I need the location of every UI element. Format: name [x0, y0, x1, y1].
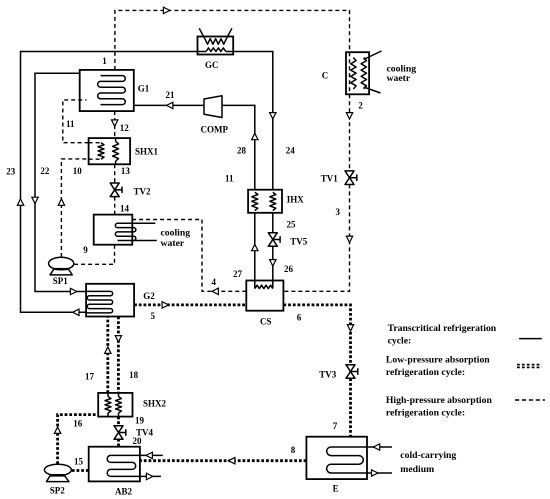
arrow 2 pointing down [346, 113, 352, 119]
svg-text:cycle:: cycle: [388, 335, 412, 346]
svg-text:4: 4 [211, 277, 216, 287]
svg-text:8: 8 [291, 445, 296, 455]
svg-text:16: 16 [73, 419, 83, 429]
solution heat exchanger SHX2 [98, 393, 132, 417]
svg-text:Low-pressure absorption: Low-pressure absorption [386, 355, 490, 366]
dashed wire 11 (SHX1 up to G1 left) [63, 100, 89, 143]
compressor COMP [204, 96, 222, 118]
svg-text:IHX: IHX [287, 195, 305, 205]
dashed wire 14 (TV2 to AB1) [114, 197, 116, 215]
svg-text:E: E [333, 484, 339, 494]
arrow into E coil pointing left [373, 444, 379, 450]
wire line 26 (TV5 down into CS) [272, 246, 274, 280]
svg-text:10: 10 [73, 166, 83, 176]
svg-text:5: 5 [151, 311, 156, 321]
svg-text:waetr: waetr [387, 73, 411, 84]
svg-text:13: 13 [121, 166, 131, 176]
condenser C [346, 51, 382, 94]
solution pump SP1 [49, 257, 74, 275]
dashed wire 10 (SP1 up to SHX1) [61, 159, 88, 257]
svg-text:TV5: TV5 [290, 237, 308, 247]
svg-text:1: 1 [102, 56, 107, 66]
arrow on line 21 pointing left [167, 102, 173, 108]
wire line 21 (COMP discharge to G1) [134, 104, 204, 106]
arrow 10 pointing up [58, 199, 64, 205]
legend dashed sample [515, 399, 545, 401]
solution heat exchanger SHX1 [89, 138, 131, 164]
valve TV2 [110, 183, 122, 197]
wire line 27 (CS up to IHX) [254, 213, 256, 281]
thick dotted wire 15 (AB2 to SP2) [71, 469, 88, 472]
evaporator E [306, 437, 392, 479]
dashed wire 12 (G1 bottom to SHX1) [114, 111, 116, 138]
absorber AB2 [89, 447, 163, 482]
svg-text:26: 26 [284, 264, 294, 274]
thick dotted wire 19 (SHX2 to TV4) [117, 417, 120, 427]
svg-text:TV1: TV1 [321, 174, 339, 184]
svg-text:27: 27 [233, 269, 243, 279]
internal heat exchanger IHX [248, 190, 282, 213]
generator G1 [80, 70, 134, 111]
thick dotted wire 8 (E to AB2) [140, 459, 306, 462]
svg-text:15: 15 [74, 457, 84, 467]
dashed wire 1 (G1 top to condenser C) [115, 10, 350, 70]
svg-text:21: 21 [166, 90, 176, 100]
valve TV3 [346, 365, 358, 379]
svg-text:SP2: SP2 [50, 485, 66, 495]
arrow 12 pointing down [112, 120, 118, 126]
svg-text:19: 19 [135, 416, 145, 426]
wire line 22 (G1 left outlet down to G2 inlet) [35, 73, 86, 291]
valve TV1 [345, 171, 357, 185]
wire line 25 (IHX down to TV5) [272, 213, 274, 233]
svg-text:14: 14 [120, 204, 130, 214]
svg-text:22: 22 [40, 166, 50, 176]
arrow 8 pointing left [229, 458, 235, 464]
arrow on top dashed wire pointing right [163, 7, 169, 13]
svg-text:cold-carrying: cold-carrying [400, 450, 456, 461]
arrow out of E coil pointing right [372, 470, 378, 476]
absorber AB1 [94, 215, 157, 245]
dashed wire 4 (CS left to AB1) [132, 220, 246, 292]
wire line 23 (G2 outlet up to GC, outer loop) [21, 52, 198, 313]
thick dotted wire 5 (G2 to CS) [134, 303, 246, 306]
svg-text:17: 17 [85, 371, 95, 381]
svg-text:12: 12 [120, 123, 130, 133]
generator G2 [86, 284, 134, 317]
thick dotted wire 16 (SP2 up to SHX2) [58, 415, 99, 464]
cascade heat exchanger CS [246, 281, 283, 311]
arrow 18 pointing down [115, 336, 121, 342]
arrow 6 pointing down [347, 325, 353, 331]
solution pump SP2 [44, 464, 71, 481]
svg-text:11: 11 [66, 119, 75, 129]
svg-text:medium: medium [400, 464, 434, 475]
wire line 24 (GC outlet down to IHX) [233, 52, 273, 190]
dashed wire 3 (TV1 down, into CS right) [283, 184, 349, 291]
svg-text:25: 25 [287, 219, 297, 229]
svg-text:9: 9 [83, 245, 88, 255]
arrow 5 pointing right [162, 302, 168, 308]
svg-text:water: water [161, 238, 185, 249]
thick dotted wire 6 (CS right then down to TV3) [283, 305, 350, 365]
arrow 4 pointing left [212, 288, 218, 294]
svg-text:C: C [322, 71, 329, 81]
arrow on line 22 pointing down [32, 197, 38, 203]
svg-text:refrigeration cycle:: refrigeration cycle: [386, 367, 465, 378]
thick dotted wire 7 (TV3 to E) [349, 378, 352, 436]
legend thick dotted sample [517, 364, 542, 366]
wire line 28 (IHX up to COMP suction) [222, 105, 255, 189]
svg-text:SHX1: SHX1 [135, 147, 159, 157]
dashed wire 13 (SHX1 to TV2) [114, 164, 116, 183]
svg-text:SHX2: SHX2 [143, 398, 167, 408]
svg-text:G1: G1 [138, 83, 150, 93]
arrow on line 23 pointing up [17, 199, 23, 205]
svg-text:G2: G2 [143, 291, 155, 301]
arrow into AB2 coil pointing left [146, 452, 152, 458]
svg-text:AB2: AB2 [115, 487, 133, 497]
arrow 3 pointing down [346, 236, 352, 242]
valve TV5 [268, 233, 280, 247]
svg-text:High-pressure absorption: High-pressure absorption [386, 395, 493, 406]
svg-text:TV2: TV2 [133, 186, 151, 196]
svg-text:24: 24 [286, 145, 296, 155]
thick dotted wire 18 (G2 down to SHX2) [117, 317, 120, 393]
svg-text:Transcritical refrigeration: Transcritical refrigeration [388, 323, 497, 334]
arrow on line 26 pointing down [270, 260, 276, 266]
thick dotted wire 17 (SHX2 up to G2) [106, 317, 109, 393]
svg-text:refrigeration cycle:: refrigeration cycle: [386, 408, 465, 419]
svg-text:TV3: TV3 [319, 369, 337, 379]
gas cooler GC [198, 28, 234, 54]
arrow on line 27 pointing up [252, 244, 258, 250]
svg-text:COMP: COMP [201, 124, 229, 134]
arrow on line 23 near G2 pointing left [73, 309, 79, 315]
svg-text:SP1: SP1 [53, 276, 69, 286]
arrow on line 28 pointing up [252, 133, 258, 139]
svg-text:CS: CS [260, 316, 272, 326]
svg-text:11: 11 [225, 173, 234, 183]
svg-text:6: 6 [297, 313, 302, 323]
legend solid line sample [519, 338, 542, 340]
svg-text:18: 18 [129, 370, 139, 380]
svg-text:28: 28 [237, 145, 247, 155]
svg-text:GC: GC [205, 60, 219, 70]
svg-text:2: 2 [358, 100, 363, 110]
arrow 16 pointing up [54, 427, 60, 433]
valve TV4 [114, 426, 126, 440]
svg-text:3: 3 [336, 207, 341, 217]
svg-text:7: 7 [333, 421, 338, 431]
svg-text:20: 20 [133, 436, 143, 446]
arrow 17 pointing up [105, 347, 111, 353]
arrow on line 24 pointing down [270, 113, 276, 119]
svg-text:23: 23 [6, 167, 16, 177]
thick dotted wire 20 (TV4 to AB2) [117, 439, 120, 447]
arrow out of AB2 coil pointing right [146, 473, 152, 479]
dashed wire 9 (AB1 bottom to SP1) [75, 245, 115, 265]
dashed wire through C down to TV1 [349, 52, 351, 171]
arrow on line 22 entering G2 pointing right [70, 288, 76, 294]
